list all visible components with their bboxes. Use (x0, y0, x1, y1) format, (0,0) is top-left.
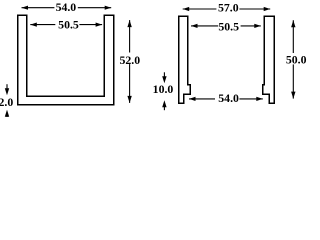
dimension 50.5 text (55, 19, 79, 30)
left strip of pass profile (right figure) (179, 16, 190, 103)
dimension 50.0 bottom arrow (291, 92, 295, 99)
dimension 50.0 line (292, 20, 294, 98)
dimension 2.0 upper arrow (points down) (6, 84, 8, 91)
dimension 54.0 bottom left arrow (189, 97, 196, 101)
dimension 54.0 line (22, 7, 112, 9)
dimension 54.0 bottom right arrow (256, 97, 263, 101)
dimension 10.0 lower arrow (points up) (163, 106, 165, 110)
svg-text:54.0: 54.0 (218, 91, 239, 105)
svg-text:52.0: 52.0 (119, 53, 140, 67)
dimension 2.0 lower arrow (points up) (6, 113, 8, 117)
dimension 52.0 line (129, 20, 131, 103)
dimension 50.5 left arrow (right figure) (191, 24, 198, 28)
dimension 52.0 text (119, 53, 141, 65)
dimension 50.5 text (right figure) (218, 21, 240, 31)
dimension 50.5 line (left figure) (30, 24, 102, 26)
dimension 50.0 text (285, 53, 307, 64)
dimension 57.0 line (183, 8, 271, 10)
dimension 54.0 right arrow (105, 6, 112, 10)
svg-text:50.5: 50.5 (218, 19, 239, 33)
svg-text:50.5: 50.5 (58, 18, 79, 32)
dimension 52.0 bottom arrow (127, 96, 131, 103)
dimension 57.0 left arrow (183, 7, 190, 11)
dimension 50.5 left arrow (30, 23, 37, 27)
dimension 10.0 upper arrow (points down) (163, 72, 165, 79)
right strip of pass profile (right figure) (263, 16, 275, 103)
svg-text:50.0: 50.0 (286, 53, 307, 67)
U-channel profile (left figure) (18, 15, 114, 104)
dimension 54.0 bottom text (215, 93, 239, 104)
dimension 57.0 right arrow (264, 7, 271, 11)
svg-text:2.0: 2.0 (0, 95, 13, 109)
dimension 50.5 line (right figure) (191, 25, 261, 27)
svg-text:57.0: 57.0 (218, 0, 239, 14)
dimension 54.0 left arrow (22, 6, 29, 10)
dimension 50.0 top arrow (291, 20, 295, 27)
svg-text:54.0: 54.0 (56, 0, 77, 14)
dimension 54.0 text (54, 2, 77, 12)
dimension 50.5 right arrow (96, 23, 103, 27)
dimension 50.5 right arrow (right figure) (254, 24, 260, 28)
dimension 57.0 text (216, 3, 239, 13)
dimension 54.0 bottom line (right figure) (189, 98, 263, 100)
svg-text:10.0: 10.0 (153, 82, 174, 96)
dimension 52.0 top arrow (127, 20, 131, 27)
